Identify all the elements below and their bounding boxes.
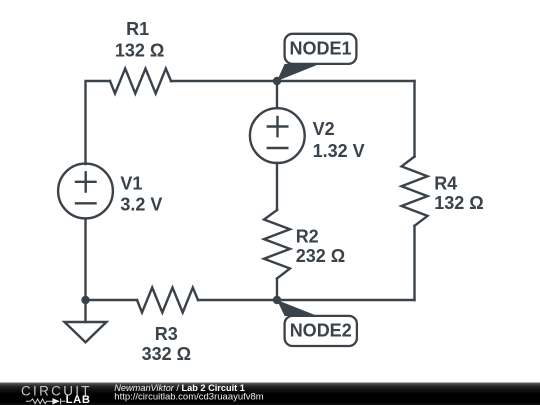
svg-text:NODE1: NODE1 xyxy=(289,38,351,58)
ground xyxy=(65,300,107,342)
node NODE2 junction dot xyxy=(273,296,281,304)
svg-text:V1: V1 xyxy=(120,174,142,194)
node NODE2 label box xyxy=(285,316,357,346)
svg-text:132 Ω: 132 Ω xyxy=(434,193,483,213)
wire left vertical top (V1 to top-left corner) xyxy=(86,81,111,164)
svg-text:R4: R4 xyxy=(434,174,457,194)
resistor R2 xyxy=(264,210,290,279)
footer logo resistor squiggle and diode xyxy=(26,398,66,404)
resistor R3 xyxy=(137,288,198,313)
svg-text:R1: R1 xyxy=(126,19,149,39)
node NODE1 label box xyxy=(285,34,357,64)
svg-text:3.2 V: 3.2 V xyxy=(120,195,162,215)
node ground junction dot xyxy=(81,296,89,304)
wire left vertical bottom (V1 to ground node) xyxy=(84,218,86,300)
wire middle vertical V2 to R2 xyxy=(276,163,278,210)
wire bottom horizontal left (ground node to R3) xyxy=(86,299,138,301)
voltage source V2 xyxy=(250,108,305,163)
svg-text:1.32 V: 1.32 V xyxy=(313,141,365,161)
wire top horizontal (R1 to top-right corner) xyxy=(171,80,415,82)
svg-text:NODE2: NODE2 xyxy=(290,321,352,341)
voltage source V1 xyxy=(58,164,113,219)
svg-text:LAB: LAB xyxy=(66,394,91,405)
svg-text:V2: V2 xyxy=(313,119,335,139)
svg-text:132 Ω: 132 Ω xyxy=(115,41,164,61)
node NODE1 callout pointer xyxy=(277,64,320,81)
resistor R1 xyxy=(110,69,171,94)
resistor R4 xyxy=(402,157,428,226)
svg-text:332 Ω: 332 Ω xyxy=(142,344,191,364)
wire middle vertical R2 to NODE2 xyxy=(276,279,278,301)
wire middle vertical NODE1 to V2 xyxy=(276,81,278,108)
wire right vertical bottom (R4 to bottom wire) xyxy=(413,226,415,300)
node NODE1 junction dot xyxy=(273,77,281,85)
wire right vertical top (to R4) xyxy=(413,81,415,157)
svg-text:R3: R3 xyxy=(155,324,178,344)
node NODE2 callout pointer xyxy=(277,300,318,316)
wire bottom horizontal right (R3 to bottom-right corner) xyxy=(198,299,415,301)
svg-text:232 Ω: 232 Ω xyxy=(296,246,345,266)
svg-text:http://circuitlab.com/cd3ruaay: http://circuitlab.com/cd3ruaayufv8m xyxy=(114,391,264,402)
svg-text:R2: R2 xyxy=(296,227,319,247)
